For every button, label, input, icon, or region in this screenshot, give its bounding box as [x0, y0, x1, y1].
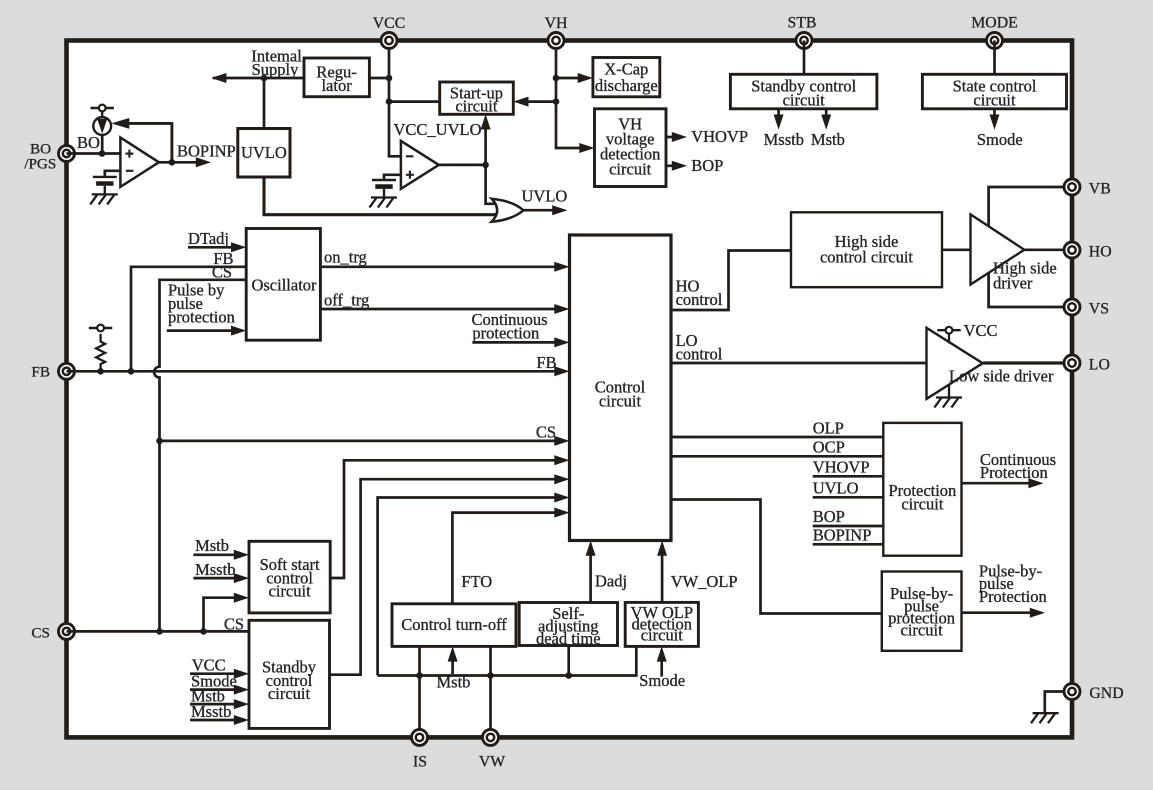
- block Control turn-off: [392, 604, 516, 647]
- reference voltage BO ground: [90, 194, 118, 204]
- svg-text:VCC: VCC: [964, 321, 998, 340]
- wire BO pin to comparator: [67, 152, 121, 155]
- svg-text:CS: CS: [224, 614, 244, 633]
- wire VH to start-up circuit: [525, 100, 556, 103]
- svg-text:Mstb: Mstb: [195, 536, 229, 555]
- arrowhead Dadj: [586, 541, 596, 556]
- pin GND: [1064, 684, 1080, 700]
- wire driver to ground: [948, 385, 950, 398]
- arrowhead BOP: [672, 161, 687, 171]
- wire LO control: [671, 362, 927, 365]
- wire control turn-off to IS pin: [418, 646, 421, 737]
- svg-text:circuit: circuit: [641, 625, 684, 644]
- svg-text:circuit: circuit: [901, 495, 944, 514]
- wire STB to standby control: [803, 41, 806, 75]
- svg-text:FB: FB: [31, 364, 50, 381]
- wire DTadj input: [188, 246, 233, 249]
- arrowhead Msstb: [774, 115, 784, 130]
- svg-text:driver: driver: [993, 274, 1033, 293]
- node dead-time junction: [565, 672, 572, 679]
- arrowhead Mstb turn-off: [448, 646, 458, 661]
- wire pulse-by-pulse output: [962, 611, 1032, 614]
- wire BOP into protection: [813, 525, 884, 528]
- wire supply to current source: [101, 111, 103, 117]
- arrow Smode into VW OLP detection: [660, 656, 663, 677]
- arrowhead Smode standby: [234, 685, 249, 695]
- svg-text:UVLO: UVLO: [813, 478, 859, 497]
- pin VH: [548, 33, 564, 49]
- block VH voltage detection circuit: [595, 109, 667, 187]
- wire VH to X-Cap discharge: [556, 77, 579, 80]
- svg-text:BOP: BOP: [691, 156, 723, 175]
- svg-text:circuit: circuit: [609, 160, 652, 179]
- pin VS: [1064, 299, 1080, 315]
- arrowhead into start-up circuit: [481, 114, 491, 129]
- pin VB: [1064, 179, 1080, 195]
- wire OLP: [671, 436, 883, 439]
- arrowhead VCC standby: [234, 669, 249, 679]
- svg-text:Msstb: Msstb: [195, 560, 235, 579]
- wire to pulse-by-pulse protection: [671, 500, 882, 614]
- label plus input BO: [125, 150, 133, 158]
- wire BOPINP into protection: [813, 543, 884, 546]
- svg-text:Msstb: Msstb: [764, 130, 804, 149]
- svg-text:Protection: Protection: [979, 587, 1047, 606]
- svg-text:control circuit: control circuit: [820, 248, 913, 267]
- svg-text:VCC_UVLO: VCC_UVLO: [394, 120, 482, 139]
- svg-text:FTO: FTO: [461, 572, 492, 591]
- svg-text:FB: FB: [536, 353, 556, 372]
- wire continuous protection output: [962, 482, 1031, 485]
- block Protection circuit: [883, 423, 961, 556]
- svg-text:Dadj: Dadj: [595, 572, 627, 591]
- comparator VCC_UVLO: [401, 141, 439, 189]
- wire Msstb into soft-start: [193, 577, 236, 580]
- pin CS: [59, 623, 75, 639]
- wire control turn-off to VW pin: [489, 646, 492, 737]
- block Control circuit: [570, 235, 672, 541]
- arrow Dadj into control circuit: [589, 548, 592, 603]
- arrow Mstb into control turn-off: [451, 656, 454, 674]
- block State control circuit: [922, 74, 1066, 109]
- block Self-adjusting dead time: [519, 603, 617, 646]
- wire soft-start output to control circuit: [330, 460, 556, 578]
- arrowhead into start-up circuit: [513, 97, 528, 107]
- wire VHOVP output: [666, 136, 674, 139]
- pin FB: [59, 363, 75, 379]
- label minus input: [406, 155, 414, 157]
- block Regulator: [304, 58, 369, 97]
- amplifier high side driver: [971, 214, 1025, 284]
- arrow VW_OLP into control circuit: [661, 548, 664, 602]
- wire plus input to reference: [384, 175, 401, 180]
- wire BO comparator output: [159, 161, 172, 164]
- wire internal supply rail: [213, 77, 304, 80]
- wire GND pin to ground: [1045, 692, 1072, 714]
- arrowhead continuous protection: [554, 337, 569, 347]
- pin VW: [483, 729, 499, 745]
- wire continuous protection input: [472, 341, 556, 344]
- wire VB to driver: [989, 187, 1072, 227]
- IC outline frame: [67, 41, 1073, 738]
- wire UVLO block output to OR gate: [264, 177, 496, 215]
- svg-text:lator: lator: [321, 76, 352, 95]
- wire to OR gate top input: [486, 165, 498, 204]
- node VH xcap junction: [553, 75, 560, 82]
- svg-text:CS: CS: [536, 422, 556, 441]
- node FB resistor junction: [97, 368, 104, 375]
- svg-text:circuit: circuit: [455, 97, 498, 116]
- label plus input: [406, 171, 414, 179]
- svg-text:MODE: MODE: [971, 15, 1018, 32]
- label minus input BO: [126, 170, 133, 172]
- wire IS/VW net riser to control circuit: [378, 498, 556, 676]
- arrowhead Smode detection: [657, 646, 667, 661]
- svg-text:UVLO: UVLO: [522, 187, 568, 206]
- arrowhead BOPINP: [196, 157, 211, 167]
- arrowhead on_trg: [554, 262, 569, 272]
- wire MODE to state control: [993, 41, 996, 75]
- supply tap BO current source: [91, 105, 114, 112]
- svg-text:LO: LO: [1089, 357, 1110, 374]
- wire VCC into standby: [190, 672, 236, 675]
- svg-text:HO: HO: [1089, 244, 1112, 261]
- wire CS pin net: [67, 630, 250, 633]
- block Start-up circuit: [440, 82, 514, 114]
- wire current source to BO node: [101, 135, 104, 154]
- arrow Msstb output: [777, 109, 780, 121]
- svg-text:on_trg: on_trg: [324, 248, 367, 267]
- svg-text:circuit: circuit: [269, 582, 312, 601]
- svg-text:Msstb: Msstb: [191, 702, 231, 721]
- node internal supply junction: [261, 75, 268, 82]
- block Standby control circuit bottom: [249, 620, 330, 728]
- wire FTO to control circuit: [452, 513, 556, 604]
- svg-text:STB: STB: [788, 15, 817, 32]
- wire CS branch to soft-start: [204, 598, 237, 632]
- svg-text:circuit: circuit: [783, 91, 826, 110]
- svg-text:Control turn-off: Control turn-off: [401, 615, 507, 634]
- wire regulator output to VCC net: [369, 77, 389, 80]
- node VCC-regulator junction: [386, 75, 393, 82]
- svg-text:VCC: VCC: [373, 15, 405, 32]
- reference voltage BO: [93, 177, 117, 195]
- arrowhead Msstb soft-start: [234, 573, 249, 583]
- svg-text:DTadj: DTadj: [188, 229, 229, 248]
- reference voltage VCC_UVLO ground: [369, 198, 397, 208]
- wire to start-up circuit enable: [484, 126, 487, 165]
- block High side control circuit: [791, 212, 942, 287]
- reference voltage VCC_UVLO: [372, 180, 396, 198]
- wire FB net to control circuit: [67, 370, 557, 373]
- svg-text:Oscillator: Oscillator: [251, 275, 317, 294]
- arrowhead internal supply: [211, 73, 226, 83]
- wire standby output to control circuit: [330, 479, 557, 675]
- wire driver to HO: [1024, 248, 1072, 251]
- wire UVLO signal out: [524, 209, 555, 212]
- wire on_trg: [320, 265, 556, 268]
- svg-text:circuit: circuit: [901, 620, 944, 639]
- pin VCC: [381, 33, 397, 49]
- svg-text:GND: GND: [1089, 685, 1123, 702]
- node CS soft-start junction: [200, 628, 207, 635]
- OR gate UVLO: [492, 199, 524, 222]
- block Oscillator: [246, 229, 320, 341]
- svg-text:CS: CS: [212, 263, 232, 282]
- svg-text:discharge: discharge: [595, 76, 658, 95]
- node IS junction: [416, 672, 423, 679]
- arrowhead IS/VW net: [554, 493, 569, 503]
- wire VCC net to start-up circuit: [389, 100, 440, 103]
- block Pulse-by-pulse protection circuit: [882, 572, 962, 651]
- comparator BO: [120, 138, 158, 187]
- node VCC_UVLO output: [482, 162, 489, 169]
- svg-text:VHOVP: VHOVP: [813, 457, 870, 476]
- arrowhead into VH detection: [579, 143, 594, 153]
- wire BOPINP feedback to current source: [128, 123, 172, 162]
- arrowhead into X-Cap: [578, 73, 593, 83]
- arrowhead VHOVP: [672, 132, 687, 142]
- svg-text:BO: BO: [77, 133, 100, 152]
- svg-text:OCP: OCP: [813, 438, 845, 457]
- node VW junction: [487, 672, 494, 679]
- svg-text:circuit: circuit: [599, 392, 642, 411]
- pin HO: [1064, 242, 1080, 258]
- arrowhead Mstb standby: [234, 699, 249, 709]
- svg-text:Supply: Supply: [252, 60, 300, 79]
- pin LO: [1064, 355, 1080, 371]
- arrowhead VW_OLP: [657, 541, 667, 556]
- arrow Mstb output: [825, 109, 828, 121]
- svg-text:/PGS: /PGS: [24, 155, 56, 172]
- svg-text:off_trg: off_trg: [324, 291, 369, 310]
- svg-text:dead time: dead time: [536, 629, 601, 648]
- wire Smode into standby: [190, 688, 236, 691]
- arrowhead Mstb: [821, 115, 831, 130]
- wire HO control: [671, 251, 791, 311]
- svg-text:protection: protection: [472, 324, 539, 343]
- arrowhead UVLO signal: [552, 205, 567, 215]
- arrowhead continuous protection output: [1028, 478, 1043, 488]
- amplifier low side driver: [927, 328, 983, 399]
- ground low side driver: [934, 398, 962, 408]
- pin BO/PGS: [59, 146, 75, 162]
- arrowhead off_trg: [554, 304, 569, 314]
- ground GND pin: [1031, 713, 1059, 723]
- block Standby control circuit top: [730, 74, 877, 109]
- wire Mstb into soft-start: [193, 553, 236, 556]
- block UVLO: [238, 129, 290, 178]
- pin IS: [412, 729, 428, 745]
- wire CS riser to oscillator with hop: [154, 280, 246, 632]
- wire Msstb into standby: [190, 719, 236, 722]
- arrowhead DTadj: [231, 242, 246, 252]
- supply tap VCC low side: [937, 327, 960, 334]
- wire minus input to reference: [105, 171, 121, 177]
- svg-text:VS: VS: [1089, 301, 1109, 318]
- svg-text:VHOVP: VHOVP: [691, 127, 748, 146]
- svg-text:protection: protection: [168, 308, 235, 327]
- svg-text:BOPINP: BOPINP: [813, 525, 872, 544]
- svg-text:VH: VH: [545, 15, 568, 32]
- svg-text:control: control: [676, 345, 723, 364]
- svg-text:Mstb: Mstb: [437, 673, 471, 692]
- wire OCP: [671, 455, 883, 458]
- arrowhead CS into soft-start: [234, 593, 249, 603]
- arrowhead pulse-by-pulse output: [1030, 608, 1045, 618]
- svg-text:BOPINP: BOPINP: [177, 142, 236, 161]
- resistor FB pull-up: [96, 334, 105, 371]
- node CS control junction: [156, 438, 163, 445]
- svg-text:circuit: circuit: [268, 684, 311, 703]
- node VH startup junction: [553, 98, 560, 105]
- wire VHOVP into protection: [813, 475, 884, 478]
- wire driver to VS: [989, 273, 1072, 307]
- arrowhead FB into control circuit: [554, 366, 569, 376]
- wire VCC tap into driver: [948, 334, 950, 344]
- svg-text:circuit: circuit: [973, 91, 1016, 110]
- arrow Smode output: [993, 109, 996, 121]
- wire UVLO into protection: [813, 496, 884, 499]
- svg-text:Protection: Protection: [980, 463, 1048, 482]
- node VCC-startup junction: [386, 98, 393, 105]
- node FB oscillator junction: [128, 368, 135, 375]
- arrowhead pulse protection: [231, 326, 246, 336]
- svg-text:VW: VW: [479, 754, 505, 771]
- arrowhead Msstb standby: [234, 715, 249, 725]
- wire FB to oscillator input: [131, 267, 246, 372]
- svg-text:Low side driver: Low side driver: [949, 367, 1054, 386]
- svg-text:VB: VB: [1089, 181, 1111, 198]
- arrowhead Smode: [990, 115, 1000, 130]
- block VW OLP detection circuit: [625, 602, 698, 646]
- wire VCC net vertical: [389, 41, 401, 157]
- wire Mstb into standby: [190, 703, 236, 706]
- wire LO output: [983, 361, 1072, 364]
- wire BOP output: [666, 164, 674, 167]
- pin MODE: [987, 33, 1003, 49]
- node BO input: [99, 150, 106, 157]
- svg-text:VW_OLP: VW_OLP: [671, 572, 738, 591]
- svg-text:OLP: OLP: [813, 419, 844, 438]
- svg-text:CS: CS: [31, 624, 50, 641]
- node BOPINP: [169, 159, 176, 166]
- wire IS/VW net horizontal: [378, 646, 637, 675]
- wire internal supply to UVLO: [263, 78, 266, 129]
- wire off_trg: [320, 308, 556, 311]
- svg-text:BOP: BOP: [813, 507, 845, 526]
- wire VH net: [556, 41, 580, 149]
- pin STB: [796, 33, 812, 49]
- svg-text:UVLO: UVLO: [241, 143, 287, 162]
- wire BOPINP signal: [172, 161, 198, 164]
- arrowhead Mstb soft-start: [234, 550, 249, 560]
- wire pulse-by-pulse protection input: [167, 329, 233, 332]
- arrowhead into current source: [111, 118, 129, 129]
- svg-text:control: control: [676, 290, 723, 309]
- node CS riser junction: [156, 628, 163, 635]
- svg-text:Smode: Smode: [977, 130, 1023, 149]
- wire CS to control circuit: [160, 440, 557, 443]
- block Soft start control circuit: [249, 541, 330, 613]
- arrowhead standby signal: [554, 474, 569, 484]
- supply tap FB resistor: [89, 325, 112, 332]
- arrowhead CS into control circuit: [554, 436, 569, 446]
- svg-text:IS: IS: [413, 754, 427, 771]
- wire dead time to IS/VW net: [567, 646, 570, 676]
- svg-text:Smode: Smode: [639, 671, 685, 690]
- wire to high side driver: [942, 248, 971, 251]
- block X-Cap discharge: [593, 58, 660, 97]
- arrowhead soft-start signal: [554, 455, 569, 465]
- arrowhead FTO: [554, 508, 569, 518]
- svg-text:Mstb: Mstb: [811, 130, 845, 149]
- current source BO: [93, 117, 111, 135]
- wire VCC_UVLO output: [439, 164, 486, 167]
